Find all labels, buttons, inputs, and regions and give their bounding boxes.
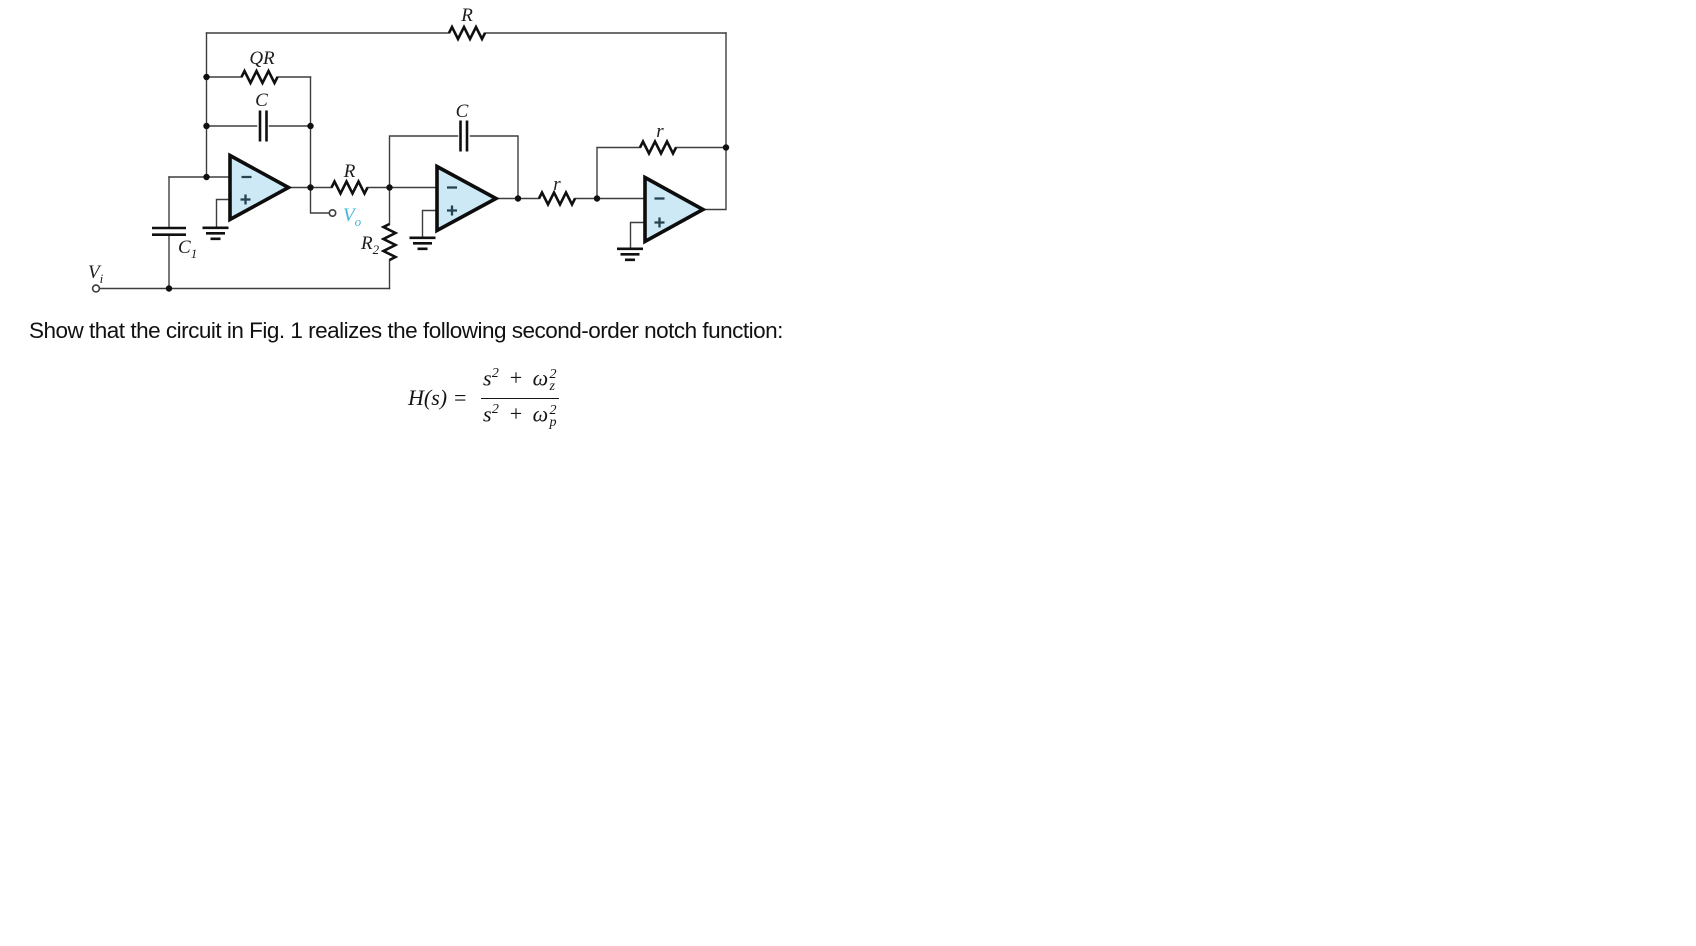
op-amp U3	[645, 178, 703, 242]
svg-text:r: r	[656, 121, 664, 142]
node C tap right	[307, 123, 313, 129]
wire left vertical bus	[206, 33, 208, 177]
circuit schematic figure	[0, 0, 820, 320]
op-amp U1	[230, 156, 289, 220]
question text	[29, 318, 783, 344]
ground U3	[617, 249, 643, 260]
wire QR row	[207, 76, 242, 78]
node U1 output	[307, 184, 313, 190]
formula H(s)	[408, 367, 559, 429]
node QR tap	[203, 74, 209, 80]
resistor r interstage	[539, 193, 575, 205]
svg-text:R: R	[343, 161, 356, 182]
wire loop2 capacitor feedback	[390, 136, 458, 188]
terminal Vi	[93, 285, 100, 292]
svg-text:r: r	[553, 174, 561, 195]
resistor r feedback U3	[640, 142, 676, 154]
ground U1	[203, 228, 229, 239]
wire U1 output run to U2	[289, 187, 332, 189]
capacitor C loop2	[461, 121, 468, 152]
wire U2 plus input to ground	[423, 211, 438, 238]
resistor R interstage	[332, 182, 368, 194]
wire Vo tap	[311, 188, 330, 214]
svg-text:Vo: Vo	[343, 205, 362, 229]
ground U2	[410, 238, 436, 249]
node U3 feedback right	[723, 144, 729, 150]
resistor R2	[384, 224, 396, 260]
capacitor C loop1	[260, 111, 267, 142]
svg-text:C: C	[255, 90, 268, 111]
wire top feedback from U3 output to left vertical	[207, 32, 450, 34]
node C1 bottom	[166, 285, 172, 291]
svg-text:C1: C1	[178, 237, 197, 261]
wire R2 vertical	[389, 260, 391, 289]
wire U1 inverting input	[169, 176, 230, 178]
svg-text:C: C	[456, 101, 469, 122]
wire loop1 right vertical	[310, 77, 312, 188]
wire U1 plus input to ground	[217, 200, 231, 228]
wire U3 plus input to ground	[631, 223, 646, 248]
resistor QR	[242, 71, 278, 83]
terminal Vo	[329, 210, 335, 216]
wire bottom from Vi	[100, 288, 390, 290]
resistor R top feedback	[449, 27, 485, 39]
capacitor C1	[152, 228, 186, 235]
node U2 inverting input	[386, 184, 392, 190]
node U3 inverting input	[594, 195, 600, 201]
wire C1 vertical	[168, 177, 170, 227]
node C tap left	[203, 123, 209, 129]
op-amp U2	[437, 167, 496, 231]
svg-text:QR: QR	[249, 48, 275, 69]
wire U2 output run to U3	[496, 198, 539, 200]
wire C row	[207, 125, 257, 127]
wire U3 output to right vertical	[703, 33, 726, 210]
node U1 inverting input	[203, 174, 209, 180]
svg-text:R: R	[460, 5, 473, 26]
node U2 output	[515, 195, 521, 201]
wire loop3 r feedback	[597, 148, 640, 199]
svg-text:Vi: Vi	[88, 262, 104, 286]
svg-text:R2: R2	[360, 233, 380, 257]
